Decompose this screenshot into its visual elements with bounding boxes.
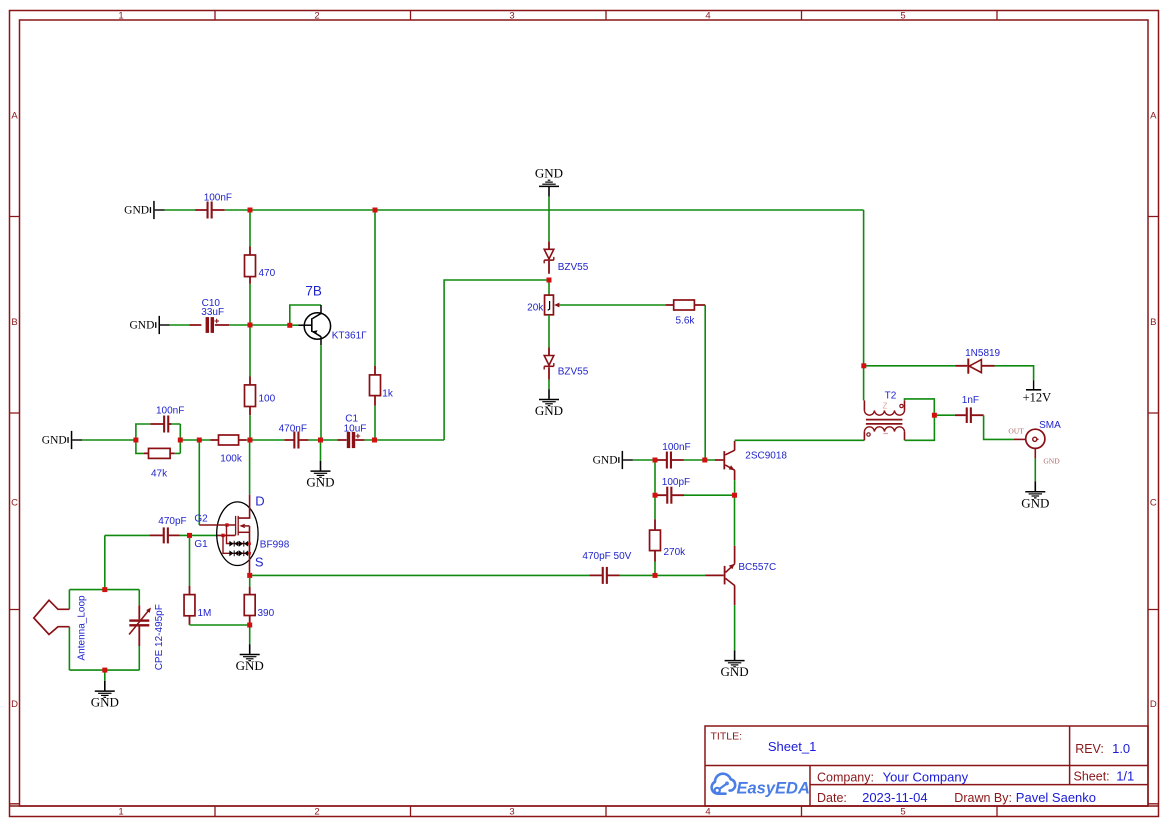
resistor 47k [144,452,175,454]
capacitor 470pF gate [149,534,179,536]
border corner closures [10,803,1159,805]
svg-text:OUT: OUT [1008,426,1024,435]
svg-text:C: C [1150,498,1157,509]
diode BZV55 upper zener [548,241,550,274]
svg-text:3: 3 [509,11,514,22]
wire 270k to source row [654,562,656,574]
junction main x250 [248,438,253,443]
svg-text:A: A [1150,111,1157,122]
transformer T2 [863,400,865,410]
capacitor 100nF coupling [657,459,684,461]
wire flag to C10 [170,324,190,326]
svg-text:Z: Z [883,402,888,411]
svg-text:Drawn By:: Drawn By: [954,791,1012,805]
wire G1 node to cap [180,534,218,536]
capacitor C10 33uF polarized [189,324,229,326]
wire BC557 collector to ground [734,605,736,650]
junction RC left [133,438,138,443]
wire 1k to main row [374,406,376,438]
junction G2 branch [197,438,202,443]
svg-text:470pF: 470pF [158,516,186,527]
svg-text:100pF: 100pF [662,477,690,488]
junction 270k bottom [653,573,658,578]
svg-text:KT361Г: KT361Г [332,331,367,342]
svg-text:100nF: 100nF [156,405,184,416]
svg-text:1/1: 1/1 [1116,768,1134,783]
wire 655 column [654,462,656,519]
svg-text:100k: 100k [220,454,243,465]
resistor 1M [189,586,191,625]
resistor 100k [211,439,247,441]
junction zener node [547,278,552,283]
wire main row right [364,439,444,441]
earth ground BC557 [734,650,736,660]
svg-text:GND: GND [236,658,264,673]
svg-text:Sheet:: Sheet: [1074,769,1110,783]
wire diode to +12V [995,366,1034,380]
capacitor C1 10uF polarized [337,439,364,441]
wire antenna to 470pF [105,534,150,536]
svg-text:47k: 47k [151,468,168,479]
wire zener node to pot [548,282,550,295]
wire emitter node down [734,498,736,546]
wire 390 to ground [249,627,251,644]
diode BZV55 lower zener [548,348,550,380]
junction diode row [861,363,866,368]
svg-text:270k: 270k [664,547,687,558]
wire antenna drop [104,535,106,587]
capacitor 100pF [657,494,684,496]
wire 1nF to SMA [984,415,1014,439]
svg-text:Date:: Date: [817,791,847,805]
svg-text:BZV55: BZV55 [558,262,589,273]
wire top rail [165,209,196,211]
svg-text:GND: GND [593,455,618,467]
border bottom rule [10,805,1159,807]
wire main row left [82,439,210,441]
svg-text:1N5819: 1N5819 [965,348,1000,359]
wire pot wiper to 5.6k [559,304,665,306]
junction secondary node [932,413,937,418]
wire 100pF to emitter node [684,494,732,496]
svg-text:BF998: BF998 [260,540,290,551]
junction emitter node [732,493,737,498]
svg-text:S: S [255,555,264,570]
svg-text:B: B [1150,317,1156,328]
svg-text:20k: 20k [527,302,544,313]
wire riser to 280 row [444,280,547,440]
earth ground antenna [104,681,106,691]
svg-text:GND: GND [42,435,67,447]
wire emitter down [734,480,736,493]
wire flag to 100nF [633,459,657,461]
svg-text:4: 4 [705,11,710,22]
junction antenna bottom [102,668,107,673]
wire zener 2 to ground [548,380,550,390]
junction top rail x250 [248,208,253,213]
svg-text:10uF: 10uF [344,423,367,434]
wire top rail to transformer [225,210,864,400]
svg-text:G2: G2 [194,513,208,524]
svg-text:T2: T2 [885,391,897,402]
svg-text:GND: GND [1043,456,1060,465]
earth ground below 470nF node [320,442,322,461]
wire antenna loop [69,590,139,671]
capacitor CPE 12-495pF variable [138,605,140,646]
svg-text:5.6k: 5.6k [676,316,696,327]
svg-text:G1: G1 [194,539,208,550]
wire 470 top [249,212,251,246]
svg-text:1: 1 [118,806,123,817]
wire RC top branch [136,424,180,440]
wire secondary bottom loop [905,418,935,441]
wire source to 390 [249,578,251,587]
wire collector feedback loop [290,305,321,325]
svg-text:100nF: 100nF [204,192,232,203]
svg-text:Your Company: Your Company [883,769,969,784]
transistor U BF998 dual-gate MOSFET [199,495,258,574]
junction base RC left [653,458,658,463]
svg-text:470nF: 470nF [279,423,307,434]
svg-text:1k: 1k [382,389,394,400]
svg-text:470: 470 [259,268,276,279]
wire RC bottom branch [136,440,180,453]
wire main row to C1 [308,439,337,441]
junction top rail x375 [373,208,378,213]
junction 390 bottom [247,623,252,628]
junction base node KT361 [287,323,292,328]
svg-text:470pF 50V: 470pF 50V [582,551,631,562]
svg-text:B: B [11,317,17,328]
svg-text:Pavel Saenko: Pavel Saenko [1016,790,1096,805]
resistor 270k [654,519,656,561]
antenna ANT1 loop symbol [34,600,70,634]
svg-text:390: 390 [258,608,275,619]
wire 100nF to base node [684,459,715,461]
svg-text:D: D [1150,699,1157,710]
junction C10 node x250 [248,323,253,328]
svg-text:2SC9018: 2SC9018 [745,450,787,461]
svg-text:A: A [11,111,18,122]
wire KT361 emitter down [320,345,322,438]
wire antenna to ground [104,670,106,681]
capacitor 470pF 50V [589,574,620,576]
svg-text:1: 1 [118,11,123,22]
svg-text:7В: 7В [305,284,322,299]
wire secondary top loop [905,399,935,413]
svg-text:EasyEDA: EasyEDA [737,780,810,798]
earth ground 390 [249,644,251,654]
junction main x320 GND [318,438,323,443]
wire G2 drop [198,442,200,525]
svg-text:33uF: 33uF [201,307,224,318]
junction main x374 1k [372,438,377,443]
svg-text:CPE 12-495pF: CPE 12-495pF [154,604,165,670]
wire secondary to 1nF [937,414,955,416]
wire C10 to junction [229,324,287,326]
svg-text:+12V: +12V [1023,391,1052,405]
svg-text:GND: GND [129,320,154,332]
wire 5.6k down to base node [704,305,706,458]
resistor 470 [249,247,251,284]
junction 100pF left [653,493,658,498]
border row ticks [10,217,1159,610]
power flag +12V [1033,380,1035,389]
capacitor 1nF [955,414,984,416]
svg-text:GND: GND [535,165,563,180]
wire source row [252,574,589,576]
junction source node [247,573,252,578]
svg-text:GND: GND [91,695,119,710]
earth ground SMA [1034,481,1036,491]
power flag GND inverted (top) [548,187,550,197]
svg-text:BZV55: BZV55 [558,366,589,377]
svg-text:GND: GND [721,664,749,679]
svg-text:5: 5 [900,11,905,22]
wire G1 node to 1M [189,538,191,586]
wire 100 to main row [249,415,251,437]
resistor 390 [249,587,251,623]
earth ground below zener 2 [548,389,550,399]
wire diode row [866,365,955,367]
wire 470 to C10 node [249,284,251,323]
junction antenna top [102,587,107,592]
wire GND to zener 1 [548,197,550,242]
junction RC right [178,438,183,443]
wire 1k top [374,212,376,366]
svg-text:BC557C: BC557C [738,562,776,573]
wire SMA to ground [1034,459,1036,482]
capacitor 100nF (RC pair) [150,423,171,425]
svg-text:4: 4 [705,806,710,817]
svg-text:Sheet_1: Sheet_1 [768,739,816,754]
svg-text:5: 5 [900,806,905,817]
wire drain from main row [249,442,251,494]
resistor 5.6k [666,304,706,306]
svg-text:Company:: Company: [817,770,874,784]
wire to BC557 base [620,574,705,576]
svg-text:D: D [11,699,18,710]
svg-text:REV:: REV: [1075,742,1104,756]
border column ticks [215,11,997,817]
svg-text:GND: GND [124,205,149,217]
capacitor 100nF (top left) [195,209,225,211]
svg-text:1M: 1M [198,608,212,619]
wire 1M bottom [190,624,248,626]
svg-text:1.0: 1.0 [1112,741,1130,756]
wire collector to transformer [735,439,865,441]
resistor 100 [249,377,251,416]
capacitor 470nF [284,439,308,441]
svg-text:Antenna_Loop: Antenna_Loop [76,595,87,661]
svg-text:2: 2 [314,806,319,817]
svg-text:TITLE:: TITLE: [711,730,743,742]
junction base node 2SC9018 [702,458,707,463]
svg-text:2: 2 [314,11,319,22]
svg-text:GND: GND [535,403,563,418]
connector SMA [1014,438,1026,440]
title block frame [705,726,1148,806]
wire main row middle [247,439,285,441]
svg-text:D: D [255,493,264,508]
diode 1N5819 Schottky [955,365,994,367]
potentiometer 20k [545,295,554,315]
svg-text:2023-11-04: 2023-11-04 [862,790,928,805]
wire pot to zener 2 [548,315,550,348]
logo EasyEDA [712,774,736,794]
svg-text:100nF: 100nF [662,442,690,453]
transistor Q 2SC9018 (NPN) [715,459,723,461]
junction G1 node [187,533,192,538]
svg-text:100: 100 [259,394,276,405]
resistor 1k [374,366,376,406]
svg-text:SMA: SMA [1039,420,1061,431]
transistor Q BC557C (PNP) [705,574,724,576]
svg-text:3: 3 [509,806,514,817]
wire C10 node down [249,327,251,376]
svg-text:GND: GND [1021,495,1049,510]
svg-text:C: C [11,498,18,509]
svg-text:1nF: 1nF [962,395,979,406]
svg-text:GND: GND [306,475,334,490]
transistor Q KT361G (PNP) [298,324,311,326]
